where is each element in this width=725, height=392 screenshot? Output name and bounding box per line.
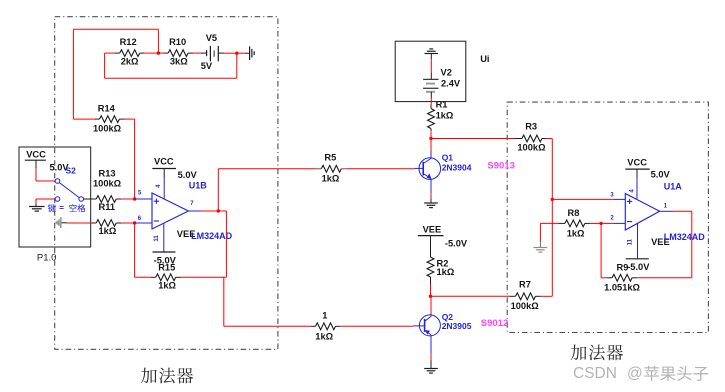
wire ground to R8 — [540, 223, 559, 242]
wire node to Q1 collector — [430, 139, 432, 151]
wire R11 to node pin6 — [122, 222, 135, 224]
svg-text:11: 11 — [628, 238, 634, 245]
svg-text:1kΩ: 1kΩ — [437, 267, 455, 277]
svg-text:R11: R11 — [99, 202, 116, 212]
svg-text:R12: R12 — [120, 37, 137, 47]
wire switch lower throw to ground — [36, 199, 55, 204]
svg-text:Ui: Ui — [480, 54, 489, 64]
svg-text:S9012: S9012 — [481, 318, 508, 329]
svg-text:3kΩ: 3kΩ — [170, 57, 188, 67]
svg-text:R5: R5 — [324, 152, 336, 162]
ground (top right of loop, rotated) — [245, 46, 254, 60]
svg-text:1.051kΩ: 1.051kΩ — [604, 283, 640, 293]
node U1A pin3 junction — [551, 198, 554, 201]
node Q1 collector junction — [429, 137, 432, 140]
ground (P1.0 box) — [29, 204, 45, 212]
wire U1B output down branch — [224, 277, 311, 326]
wire pin6 node down to R15 — [135, 223, 151, 277]
svg-text:R14: R14 — [98, 104, 116, 114]
wire R15 to U1B output — [181, 211, 226, 277]
svg-text:U1A: U1A — [664, 181, 683, 191]
svg-text:R8: R8 — [568, 208, 580, 218]
svg-text:100kΩ: 100kΩ — [517, 143, 546, 153]
svg-text:5V: 5V — [201, 61, 213, 71]
wire R12 to node — [144, 52, 158, 54]
svg-text:1: 1 — [664, 204, 668, 210]
svg-text:2N3904: 2N3904 — [442, 163, 472, 173]
wire V2 to R1 — [430, 98, 432, 104]
svg-text:3: 3 — [610, 192, 614, 198]
wire pin2 node down to R9 — [601, 223, 607, 277]
svg-text:Q1: Q1 — [442, 153, 454, 163]
wire ground to V2 — [430, 59, 432, 73]
wire R14 to node pin5 — [125, 119, 135, 199]
svg-text:100kΩ: 100kΩ — [511, 301, 540, 311]
resistor R13 — [93, 169, 122, 203]
label key = space (jian = kongge) — [48, 204, 86, 213]
svg-text:100kΩ: 100kΩ — [93, 179, 122, 189]
svg-text:4: 4 — [156, 184, 162, 188]
resistor R1 — [428, 100, 454, 132]
svg-text:R7: R7 — [519, 280, 531, 290]
label adder (jiafaqi) right — [571, 345, 623, 361]
svg-text:1kΩ: 1kΩ — [567, 228, 585, 238]
svg-text:=: = — [59, 204, 64, 213]
svg-text:2N3905: 2N3905 — [442, 321, 472, 331]
svg-text:VEE: VEE — [423, 224, 442, 234]
node V5-ground junction — [235, 52, 238, 55]
node Q2 emitter junction — [429, 295, 432, 298]
wire resistor 1 to Q2 base — [340, 325, 413, 327]
ground (R8, gray) — [534, 242, 548, 252]
ground (inverted, V2 box) — [425, 49, 439, 60]
power VCC (U1A) — [625, 157, 649, 178]
svg-text:R1: R1 — [436, 100, 448, 110]
svg-text:1kΩ: 1kΩ — [436, 110, 454, 120]
wire R1 to node Q1C — [430, 131, 432, 138]
hierarchical block P1.0 box — [19, 147, 91, 247]
op-amp U1A — [613, 178, 673, 259]
power VEE bar (U1B) — [153, 251, 176, 253]
input connector arrow (P1.0 box) — [55, 217, 68, 228]
wire R9 to U1A output — [637, 211, 692, 277]
resistor R11 — [92, 202, 122, 236]
power VEE (middle) — [418, 224, 444, 235]
svg-text:CSDN: CSDN — [573, 365, 617, 382]
wire R13 to node pin5 — [122, 198, 135, 200]
resistor R7 — [509, 280, 540, 311]
transistor Q2 2N3905 — [413, 313, 441, 354]
subcircuit dashed box left (adder 1) — [55, 17, 278, 350]
svg-text:4: 4 — [629, 189, 635, 193]
wire R8 to node pin2 — [590, 222, 601, 224]
svg-text:2kΩ: 2kΩ — [121, 57, 139, 67]
svg-text:S9013: S9013 — [487, 161, 514, 172]
svg-text:-5.0V: -5.0V — [627, 262, 650, 272]
resistor R14 — [73, 104, 124, 134]
svg-text:V5: V5 — [206, 33, 217, 43]
svg-text:V2: V2 — [441, 68, 452, 78]
wire U1B output up and right to R5 — [218, 169, 316, 211]
resistor R2 — [427, 236, 455, 284]
power VCC (P1.0 box) — [25, 149, 46, 168]
transistor Q1 2N3904 — [414, 151, 440, 194]
svg-text:1: 1 — [322, 311, 327, 321]
resistor R5 — [317, 152, 346, 183]
resistor R15 — [151, 263, 181, 291]
svg-text:2.4V: 2.4V — [441, 79, 461, 89]
wire switch common to R13 — [83, 198, 96, 200]
wire U1A output — [674, 210, 692, 212]
svg-text:R15: R15 — [158, 263, 175, 273]
svg-text:6: 6 — [138, 216, 142, 222]
svg-text:5.0V: 5.0V — [178, 170, 198, 180]
svg-text:1kΩ: 1kΩ — [158, 280, 176, 290]
ground (Q1 emitter) — [424, 203, 438, 208]
svg-text:R3: R3 — [525, 122, 537, 132]
ground (Q2 collector) — [424, 369, 438, 374]
svg-text:1kΩ: 1kΩ — [315, 331, 333, 341]
wire node to U1A pin2 — [601, 222, 613, 224]
battery V5 — [201, 46, 224, 61]
svg-text:LM324AD: LM324AD — [664, 232, 706, 242]
svg-text:R10: R10 — [169, 37, 186, 47]
resistor R3 — [515, 122, 546, 153]
wire V5 to ground node — [224, 52, 237, 54]
wire U1B output — [201, 210, 218, 212]
svg-text:@: @ — [627, 365, 643, 382]
svg-text:1kΩ: 1kΩ — [99, 226, 117, 236]
wire top feedback loop upper — [73, 29, 158, 119]
resistor R12 — [105, 37, 145, 67]
node R12-R10 junction — [157, 51, 160, 54]
wire node to ground (rotated) — [237, 52, 245, 54]
svg-text:100kΩ: 100kΩ — [93, 123, 122, 133]
wire Q1 collector node to R3 — [431, 138, 515, 140]
node U1B pin5 junction — [133, 197, 136, 200]
wire R3 to vertical bus — [546, 139, 553, 297]
watermark CSDN @pingguotouzi — [573, 365, 708, 382]
battery V2 — [423, 73, 438, 98]
power VEE bar (U1A) — [626, 258, 649, 260]
wire R7 to vertical bus — [541, 295, 553, 297]
wire R2 to node Q2E — [430, 284, 432, 297]
wire Q2 collector to ground — [430, 354, 432, 369]
svg-text:5.0V: 5.0V — [651, 170, 671, 180]
svg-text:7: 7 — [190, 201, 194, 207]
subcircuit dashed box right (adder 2) — [507, 102, 708, 332]
wire node to U1A pin3 — [552, 198, 613, 200]
svg-text:VCC: VCC — [26, 149, 46, 159]
resistor R8 — [559, 208, 590, 238]
svg-text:R13: R13 — [99, 169, 116, 179]
node U1A pin2 junction — [599, 222, 602, 225]
wire node to Q2 — [430, 296, 432, 313]
wire connector arrow to R11 — [67, 222, 91, 224]
svg-text:VCC: VCC — [627, 157, 647, 167]
svg-text:-5.0V: -5.0V — [445, 238, 468, 248]
svg-text:2: 2 — [610, 216, 614, 222]
hierarchical block Ui source box — [395, 41, 466, 101]
wire R5 to Q1 base — [346, 168, 414, 170]
op-amp U1B — [135, 178, 201, 252]
wire Q1 emitter to ground — [430, 193, 432, 203]
wire Q2 node to R7 — [431, 295, 510, 297]
svg-text:P1.0: P1.0 — [37, 253, 57, 264]
resistor R9 — [604, 274, 640, 292]
svg-text:11: 11 — [154, 235, 160, 242]
svg-text:U1B: U1B — [189, 181, 208, 191]
node U1B pin6 junction — [133, 221, 136, 224]
svg-text:VCC: VCC — [154, 157, 174, 167]
resistor 1 (1kohm) — [311, 311, 340, 342]
svg-text:1kΩ: 1kΩ — [322, 173, 340, 183]
svg-text:5: 5 — [138, 190, 142, 196]
node U1B output junction — [217, 209, 220, 212]
label adder (jiafaqi) left — [141, 368, 193, 384]
wire R10 to V5 — [193, 52, 201, 54]
switch S2 — [55, 179, 83, 202]
wire R12 bottom loop — [105, 53, 237, 78]
resistor R10 — [158, 37, 193, 67]
wire VCC to switch S2 — [36, 168, 55, 181]
power VCC (U1B) — [152, 157, 176, 179]
svg-text:S2: S2 — [66, 166, 77, 176]
